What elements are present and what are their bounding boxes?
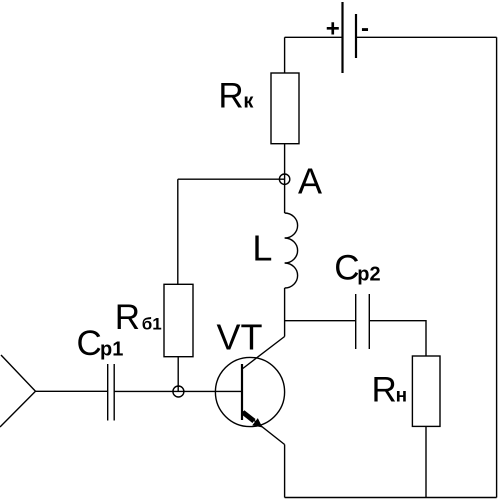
wire through base node [173, 386, 184, 392]
wire Cp2 to Rn top [369, 321, 426, 356]
inductor L coil [285, 213, 298, 288]
svg-text:н: н [396, 385, 407, 406]
capacitor Cp1 right plate [113, 364, 115, 421]
base node terminal circle [173, 386, 184, 397]
resistor Rb1 body [164, 284, 193, 356]
capacitor Cp2 left plate [355, 294, 357, 349]
transistor VT base bar [241, 364, 243, 420]
svg-text:R: R [218, 77, 243, 116]
node A terminal circle [279, 174, 289, 184]
wire top-left supply [285, 36, 343, 38]
transistor VT collector lead [243, 337, 285, 369]
svg-text:C: C [334, 249, 359, 288]
svg-text:C: C [77, 324, 102, 363]
resistor Rk body [271, 73, 299, 144]
svg-text:VT: VT [217, 316, 263, 357]
wire junction to Cp2 left [285, 320, 356, 322]
svg-text:-: - [361, 15, 369, 42]
wire through node A vertical [284, 174, 286, 184]
wire supply drop to Rk [284, 37, 286, 73]
wire Cp1 to base [114, 390, 242, 392]
svg-text:R: R [115, 298, 140, 337]
battery GB negative plate [355, 14, 357, 58]
wire Rn bottom to return [425, 426, 427, 497]
battery GB positive plate [341, 2, 343, 73]
svg-text:R: R [372, 370, 397, 409]
wire bottom return [285, 497, 497, 499]
svg-text:б1: б1 [142, 314, 162, 333]
wire right side down [496, 37, 498, 497]
wire node A to inductor [284, 184, 286, 213]
transistor VT circle [215, 357, 284, 426]
svg-text:к: к [243, 91, 254, 113]
svg-text:L: L [252, 228, 272, 269]
transistor VT emitter lead [243, 412, 285, 445]
wire feedback down to Rb1 top [177, 179, 179, 284]
capacitor Cp1 left plate [107, 364, 109, 421]
capacitor Cp2 right plate [368, 294, 370, 349]
wire Rk to node A [284, 144, 286, 174]
resistor Rn body [412, 356, 440, 426]
svg-text:+: + [326, 16, 340, 43]
svg-text:p1: p1 [100, 339, 123, 361]
antenna WA [0, 355, 36, 427]
wire Rb1 bottom to base node [177, 357, 179, 392]
wire emitter down [284, 445, 286, 498]
wire inductor to collector junction [284, 288, 286, 337]
wire feedback from node A to left [178, 178, 285, 180]
svg-text:p2: p2 [357, 264, 380, 286]
transistor VT emitter arrow [243, 412, 263, 427]
svg-text:A: A [298, 161, 322, 202]
wire antenna to Cp1 [36, 390, 108, 392]
wire top-right from battery [356, 36, 497, 38]
